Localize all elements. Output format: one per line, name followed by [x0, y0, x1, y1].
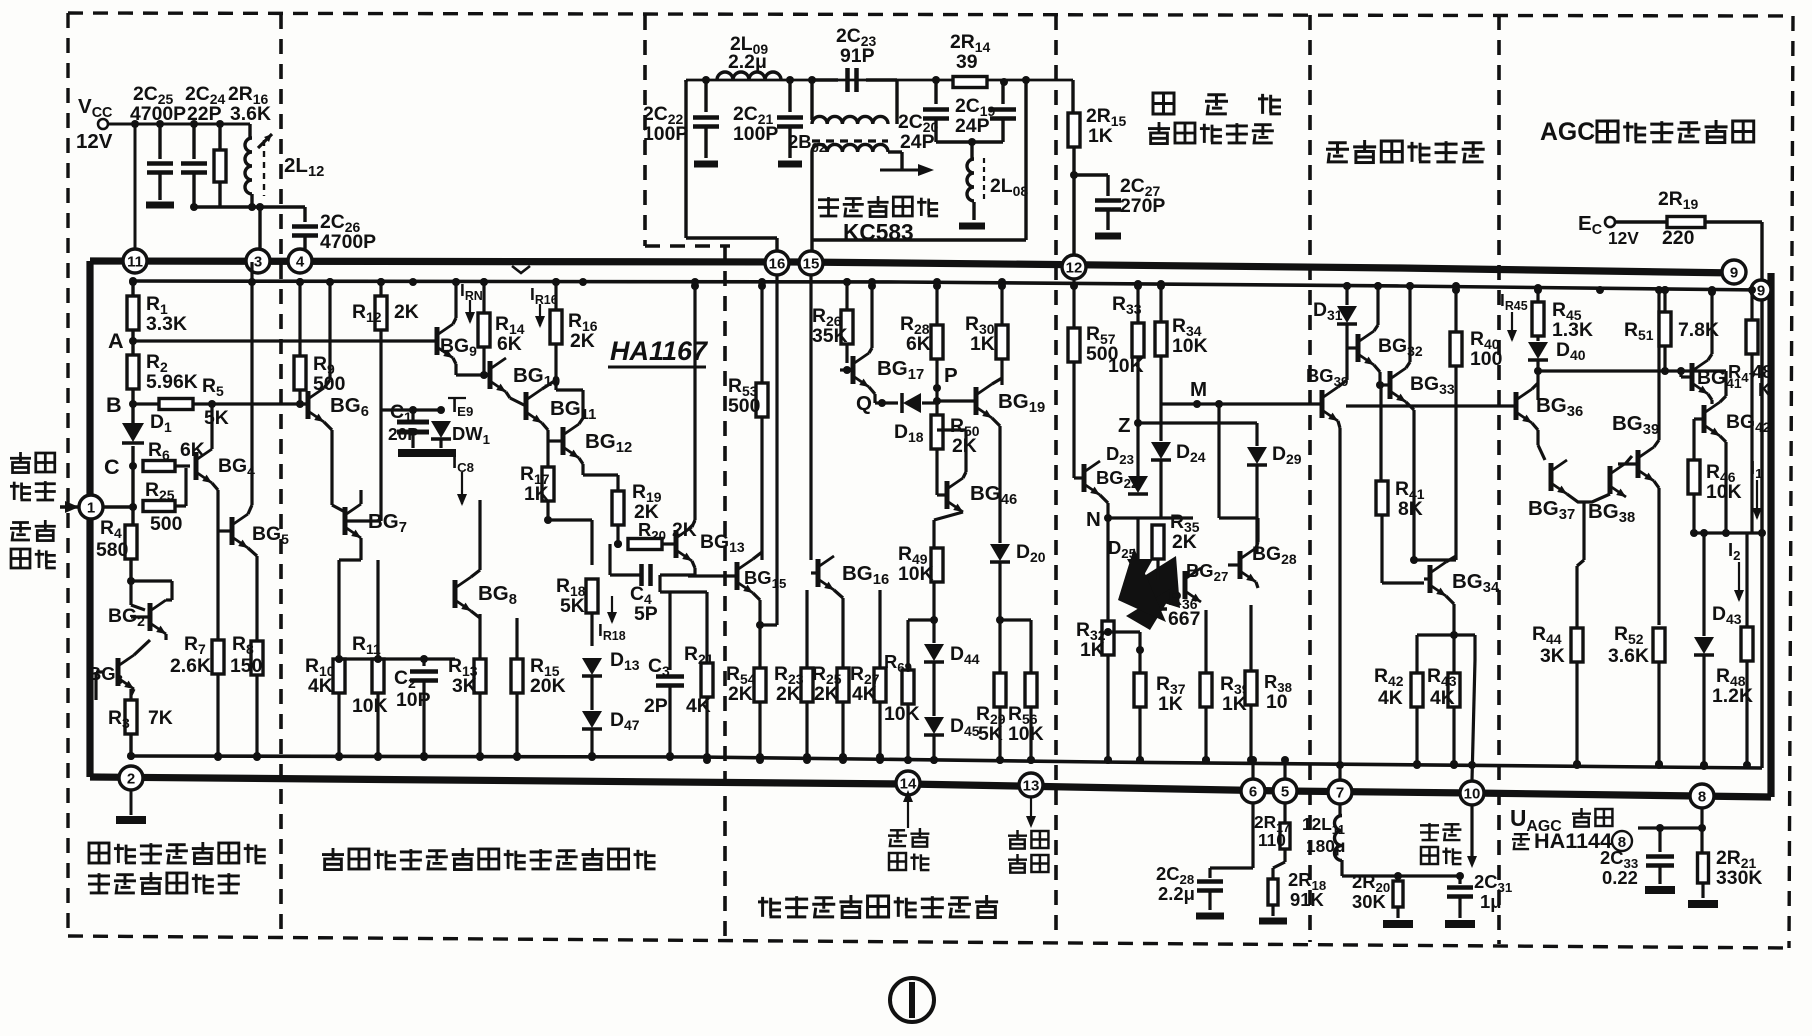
svg-text:1K: 1K	[970, 333, 995, 355]
resistor R56	[1029, 620, 1032, 673]
junction dot top rail	[579, 278, 587, 286]
junction dot top rail	[758, 278, 766, 286]
wire BG11 emitter	[542, 423, 548, 430]
svg-text:220: 220	[1662, 227, 1694, 249]
pin 13	[1019, 773, 1043, 797]
capacitor 2C19	[1001, 82, 1004, 104]
svg-text:P: P	[944, 364, 958, 387]
resistor R21	[705, 592, 708, 663]
wire BG5 emitter	[248, 548, 257, 556]
junction dot top rail	[409, 278, 417, 286]
resistor R53	[760, 286, 763, 383]
wire BG39b base	[1618, 462, 1638, 465]
label blanking in	[890, 829, 905, 831]
pin 3	[246, 249, 270, 273]
resistor R15	[515, 618, 518, 659]
resistor R2	[127, 355, 139, 389]
svg-text:3.6K: 3.6K	[230, 103, 271, 125]
svg-text:22P: 22P	[187, 103, 222, 125]
svg-text:35K: 35K	[812, 325, 848, 347]
svg-text:24P: 24P	[900, 131, 935, 153]
resistor R33	[1136, 284, 1139, 323]
junction dot top rail	[1534, 286, 1542, 294]
wire BG8 collector	[471, 570, 480, 577]
diode D13	[582, 658, 602, 675]
junction dot top rail	[933, 282, 941, 290]
pin 15	[799, 251, 823, 275]
junction dot bottom rail	[253, 752, 261, 760]
wire pin6 drop	[1251, 803, 1254, 868]
junction dot bottom rail	[1450, 761, 1458, 769]
svg-text:10K: 10K	[352, 695, 388, 717]
svg-text:M: M	[1190, 378, 1207, 401]
wire pin15 drop	[809, 275, 812, 560]
wire node row 533	[1694, 531, 1762, 534]
capacitor C4	[639, 564, 644, 586]
svg-text:16: 16	[769, 256, 786, 273]
title video detect	[332, 848, 335, 858]
junction dot bottom rail	[335, 752, 343, 760]
svg-text:10P: 10P	[396, 689, 431, 711]
resistor R54	[758, 625, 761, 668]
svg-text:4K: 4K	[308, 675, 333, 697]
svg-text:1.3K: 1.3K	[1552, 319, 1593, 341]
wire BG34 base	[1382, 581, 1424, 584]
transistor BG3	[116, 658, 121, 686]
svg-text:N: N	[1086, 508, 1101, 531]
resistor R46	[1688, 460, 1700, 494]
svg-text:1K: 1K	[1088, 125, 1113, 147]
resistor R40	[1454, 286, 1457, 332]
junction dot top rail	[377, 278, 385, 286]
wire C3 R21 top	[660, 590, 707, 593]
transformer 2B02 secondary	[812, 144, 888, 152]
junction dot top rail	[296, 278, 304, 286]
title pre-video	[761, 897, 764, 917]
IC top rail (thick)	[90, 261, 1737, 273]
svg-text:6K: 6K	[906, 333, 931, 355]
svg-text:2P: 2P	[644, 695, 668, 717]
junction dot bottom rail	[904, 756, 912, 764]
wire vcc drop to pin11	[134, 124, 137, 250]
transistor BG32	[1356, 334, 1361, 362]
svg-text:KC583: KC583	[843, 219, 914, 245]
node A	[131, 330, 134, 355]
wire BG42 emitter	[1720, 436, 1726, 442]
svg-text:100P: 100P	[643, 123, 688, 145]
transistor BG8	[453, 580, 458, 608]
inductor 2L08	[970, 142, 973, 158]
svg-text:3K: 3K	[1540, 645, 1565, 667]
IC bottom rail (thick)	[90, 777, 1771, 797]
rail chevron	[512, 266, 530, 273]
wire D40 to BG36	[1536, 371, 1539, 400]
wire R51 join	[1599, 360, 1601, 361]
wire BG2 loop	[129, 581, 132, 605]
resistor R11	[376, 560, 379, 659]
wire BG22 emitter	[1100, 495, 1108, 503]
resistor R9	[298, 281, 301, 356]
arrow pin14	[907, 770, 909, 784]
wire pin10 drop	[1470, 805, 1473, 862]
title dc bias line1	[89, 843, 109, 863]
junction dot bottom rail	[1336, 761, 1344, 769]
wire BG28 collector	[1256, 542, 1258, 548]
wire main left column	[131, 281, 134, 296]
svg-text:91K: 91K	[1290, 889, 1324, 910]
junction dot bottom rail	[214, 752, 222, 760]
figure mark	[890, 978, 934, 1022]
junction dot top rail	[1748, 286, 1756, 294]
label image IF	[19, 452, 22, 461]
resistor R30	[1000, 282, 1003, 325]
svg-text:Z: Z	[1118, 414, 1131, 437]
sound-trap sub-box dashed	[643, 15, 647, 246]
capacitor C1	[398, 435, 430, 437]
diode D18	[903, 393, 921, 413]
wire BG4 emitter	[212, 483, 218, 490]
svg-text:A: A	[108, 328, 124, 353]
Vcc terminal	[98, 119, 108, 129]
wire BG33 emitter	[1406, 402, 1414, 410]
transistor BG39a	[1320, 390, 1325, 418]
diode D1	[122, 423, 144, 442]
transistor BG39b	[1636, 450, 1641, 478]
svg-text:10K: 10K	[1706, 481, 1742, 503]
resistor 2R20	[1396, 876, 1399, 880]
junction dot bottom rail	[1573, 761, 1581, 769]
resistor R29	[998, 620, 1001, 673]
svg-text:3.3K: 3.3K	[146, 313, 187, 335]
internal VCC rail	[135, 281, 1762, 290]
svg-text:10K: 10K	[1172, 335, 1208, 357]
wire BG19 emitter	[992, 418, 1000, 426]
junction dot top rail	[691, 278, 699, 286]
svg-text:2K: 2K	[728, 683, 753, 705]
inductor 12L11	[1338, 805, 1341, 815]
wire caps join	[936, 140, 1003, 143]
wire BG36 emitter	[1532, 423, 1538, 430]
resistor R16	[554, 282, 557, 310]
junction dot bottom rail	[513, 752, 521, 760]
resistor R69	[908, 618, 934, 621]
ground pin2	[130, 790, 133, 815]
svg-text:20K: 20K	[530, 675, 566, 697]
resistor R47	[1750, 292, 1753, 320]
label signal input	[12, 521, 29, 524]
wire BG39a collector	[1338, 380, 1347, 387]
wire BG22 base	[1072, 460, 1075, 478]
wire BG6 collector	[324, 380, 330, 388]
svg-text:10: 10	[1266, 691, 1288, 713]
wire BG15 emitter	[753, 593, 760, 600]
junction dot bottom rail	[930, 756, 938, 764]
transistor BG33	[1388, 371, 1393, 399]
svg-text:500: 500	[150, 513, 182, 535]
capacitor 2C24	[192, 124, 195, 159]
wire pin8 drop	[1700, 808, 1703, 828]
svg-text:5K: 5K	[204, 407, 229, 429]
svg-text:4: 4	[296, 254, 305, 271]
svg-text:10K: 10K	[1008, 723, 1044, 745]
wire to pin3	[258, 207, 261, 249]
svg-text:91P: 91P	[840, 45, 875, 67]
junction dot bottom rail	[127, 752, 135, 760]
junction dot top rail	[998, 282, 1006, 290]
junction dot top rail	[1070, 282, 1078, 290]
junction dot bottom rail	[996, 756, 1004, 764]
junction dot bottom rail	[1249, 756, 1257, 764]
svg-text:5K: 5K	[978, 723, 1003, 745]
resistor R45	[1536, 288, 1539, 302]
wire BG11 collector	[542, 380, 556, 389]
node Z	[1134, 419, 1142, 427]
resistor R17	[542, 467, 554, 501]
resistor R8	[251, 641, 263, 675]
svg-text:6K: 6K	[497, 333, 522, 355]
junction dot bottom rail	[1413, 761, 1421, 769]
resistor R43	[1448, 673, 1460, 707]
inductor 2L12	[248, 124, 251, 138]
wire BG19 base	[937, 399, 976, 402]
resistor R39	[1204, 610, 1207, 673]
resistor R52	[1653, 628, 1665, 662]
junction dot top rail	[248, 278, 256, 286]
pin 16	[765, 251, 789, 275]
svg-text:14: 14	[900, 776, 917, 793]
junction dot top rail	[1406, 282, 1414, 290]
wire BG39b links	[1654, 440, 1659, 447]
diode D45	[932, 663, 935, 716]
junction dot bottom rail	[839, 756, 847, 764]
resistor R51	[1663, 290, 1666, 312]
node B	[131, 389, 134, 424]
junction dot bottom rail	[1655, 761, 1663, 769]
svg-text:10K: 10K	[884, 703, 920, 725]
junction dot top rail	[452, 278, 460, 286]
resistor R35	[1152, 525, 1164, 559]
diode D29	[1255, 423, 1258, 446]
svg-text:15: 15	[803, 256, 820, 273]
resistor R19	[616, 475, 619, 491]
svg-text:AGC: AGC	[1540, 119, 1595, 146]
transistor BG10	[488, 361, 493, 389]
svg-text:C: C	[104, 454, 120, 479]
diode blob D25 D26 D27	[1127, 559, 1153, 582]
svg-text:2K: 2K	[394, 301, 419, 323]
junction dot bottom rail	[876, 756, 884, 764]
transformer core	[812, 139, 888, 142]
wire BG46 base	[935, 480, 938, 495]
svg-text:5P: 5P	[634, 603, 658, 625]
resistor R25	[143, 501, 175, 512]
label to-sound	[818, 198, 839, 201]
pin 9 inner	[1751, 280, 1771, 300]
junction dot top rail	[1374, 282, 1382, 290]
wire D20 down	[998, 563, 1001, 620]
junction dot top rail	[1708, 286, 1716, 294]
wire BG46 collector	[963, 472, 966, 478]
Ec terminal	[1605, 217, 1615, 227]
resistor 2R14	[953, 77, 987, 88]
wire BG15 base	[688, 574, 737, 577]
transistor BG15	[735, 562, 740, 590]
junction dot top rail	[1596, 286, 1604, 294]
svg-text:5K: 5K	[560, 595, 585, 617]
wire BG17 base	[846, 363, 848, 370]
transistor BG37	[1549, 463, 1554, 491]
junction dot bottom rail	[1027, 756, 1035, 764]
svg-text:10K: 10K	[1108, 355, 1144, 377]
wire BG39a emitter	[1338, 421, 1340, 428]
svg-text:Q: Q	[856, 392, 872, 415]
wire R3 to rail	[129, 734, 132, 756]
wire BG9 emitter	[453, 358, 456, 364]
svg-text:4700P: 4700P	[130, 103, 186, 125]
svg-text:330K: 330K	[1716, 867, 1762, 889]
wire BG42 collector	[1720, 396, 1726, 402]
svg-text:667: 667	[1168, 608, 1200, 630]
transistor BG11	[524, 392, 529, 420]
wire trap bottom loop	[810, 170, 813, 250]
transistor BG36	[1514, 392, 1519, 420]
transistor BG27	[1183, 571, 1188, 599]
svg-text:4K: 4K	[686, 695, 711, 717]
svg-text:2: 2	[127, 771, 135, 788]
resistor R32	[1106, 518, 1109, 621]
diode D23	[1128, 476, 1148, 493]
junction dot top rail	[480, 278, 488, 286]
transistor BG7	[343, 507, 348, 535]
resistor 2R19	[1615, 220, 1666, 223]
wire BG38 collector	[1626, 456, 1632, 463]
wire BG32 collector	[1374, 325, 1378, 331]
wire BG12 emitter drop	[579, 458, 583, 464]
svg-text:5.96K: 5.96K	[146, 371, 198, 393]
transistor BG4	[194, 452, 199, 480]
resistor R14	[482, 282, 485, 313]
resistor R50	[931, 415, 943, 449]
capacitor 2C31	[1458, 876, 1461, 884]
svg-text:2K: 2K	[952, 435, 977, 457]
wire BG36 collector	[1532, 383, 1538, 389]
section divider x=281	[279, 14, 283, 936]
wire BG46 emitter	[934, 512, 963, 520]
diode D31	[1345, 286, 1348, 305]
svg-text:1K: 1K	[1158, 693, 1183, 715]
svg-text:180μ: 180μ	[1306, 836, 1345, 856]
svg-text:10K: 10K	[898, 563, 934, 585]
svg-text:3: 3	[254, 254, 262, 271]
wire BG5 base	[218, 529, 232, 532]
junction dot top rail	[1452, 286, 1460, 294]
svg-text:2.6K: 2.6K	[170, 655, 211, 677]
svg-text:2K: 2K	[776, 683, 801, 705]
resistor R4	[125, 525, 137, 559]
svg-text:12V: 12V	[76, 130, 113, 153]
transistor BG41	[1690, 363, 1695, 391]
transistor BG13	[674, 530, 679, 558]
wire BG33 base	[1380, 383, 1390, 386]
svg-text:1μ: 1μ	[1480, 891, 1501, 912]
wire blob bottom	[1138, 632, 1141, 673]
svg-text:8: 8	[1698, 789, 1706, 806]
pin 10	[1460, 781, 1484, 805]
resistor R44	[1577, 560, 1584, 566]
transistor BG17	[851, 356, 856, 384]
svg-text:4K: 4K	[1378, 687, 1403, 709]
diode D43	[1702, 533, 1705, 636]
pin 11	[123, 249, 147, 273]
trap top wire	[686, 79, 1073, 82]
wire BG6 emitter	[324, 422, 332, 430]
resistor R38	[1249, 605, 1252, 671]
resistor R7	[216, 640, 219, 641]
resistor R41	[1379, 385, 1382, 481]
resistor 2R18	[1273, 862, 1285, 868]
transistor BG22	[1082, 464, 1087, 492]
IC left edge (thick)	[86, 261, 93, 777]
svg-text:1: 1	[87, 500, 95, 517]
junction dot top rail	[1343, 282, 1351, 290]
pin 12	[1062, 255, 1086, 279]
svg-text:110: 110	[1258, 830, 1286, 850]
svg-text:500: 500	[728, 395, 760, 417]
wire BG16 emitter	[834, 590, 843, 598]
svg-text:270P: 270P	[1120, 195, 1165, 217]
section divider x=725	[723, 246, 727, 938]
junction dot bottom rail	[703, 756, 711, 764]
wire BG10 emitter	[506, 392, 510, 398]
svg-text:580: 580	[96, 539, 128, 561]
svg-text:9: 9	[1730, 265, 1738, 282]
resistor R49	[936, 449, 938, 548]
section divider x=1499	[1497, 15, 1501, 944]
resistor 2R16	[218, 124, 221, 150]
junction dot top rail	[326, 278, 334, 286]
pin 2	[119, 766, 143, 790]
wire sync out node	[1417, 633, 1454, 636]
resistor R28	[935, 282, 938, 325]
junction dot top rail	[1134, 282, 1142, 290]
wire BG16 base	[811, 571, 818, 574]
pin 4	[288, 249, 312, 273]
transformer 2B02 primary	[810, 80, 813, 120]
wire R17 join	[548, 518, 592, 521]
svg-text:8K: 8K	[1398, 498, 1423, 520]
svg-text:1K: 1K	[524, 483, 549, 505]
pin 8	[1690, 784, 1714, 808]
title sync separation	[1328, 141, 1346, 144]
inductor 2L09	[717, 72, 781, 80]
svg-text:2K: 2K	[814, 683, 839, 705]
transistor BG28	[1238, 551, 1243, 579]
resistor R12	[379, 282, 382, 296]
wire BG34 emitter	[1446, 596, 1454, 604]
svg-text:2K: 2K	[1172, 531, 1197, 553]
svg-text:2.2μ: 2.2μ	[728, 51, 767, 73]
diode D20	[990, 544, 1010, 561]
wire A to BG9 base	[133, 339, 437, 342]
svg-text:20P: 20P	[388, 424, 419, 444]
node C	[131, 446, 134, 527]
resistor R20	[628, 539, 662, 550]
svg-text:24P: 24P	[955, 115, 990, 137]
resistor R1	[127, 296, 139, 330]
resistor R25b	[841, 598, 844, 668]
section frame outer dashed box	[68, 13, 1793, 16]
wire BG8 emitter	[471, 611, 480, 618]
